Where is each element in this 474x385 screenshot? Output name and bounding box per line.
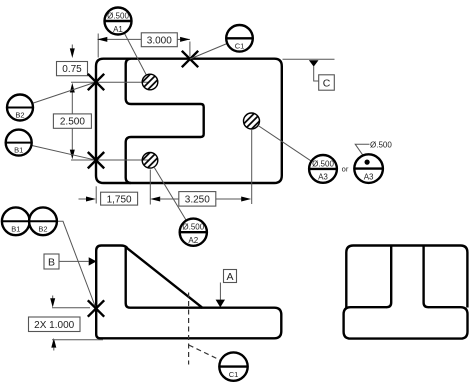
datum C leader: [314, 66, 319, 81]
end view wall block: [346, 246, 467, 308]
balloon A1 leader: [124, 33, 146, 75]
svg-text:Ø.500: Ø.500: [107, 11, 129, 20]
front view wall face line: [126, 247, 202, 308]
datum A triangle: [216, 300, 225, 308]
extension line left of 3.000: [97, 34, 99, 58]
svg-text:C1: C1: [235, 42, 245, 51]
balloon C1 top leader: [190, 44, 227, 60]
balloon C1 top: [226, 25, 253, 52]
balloon A3 alternate leader: [355, 144, 369, 161]
dimension 2X 1.000 lower arrow tail: [53, 347, 55, 350]
dimension 0.75 box: [57, 62, 88, 76]
hole A2: [142, 153, 158, 169]
dimension 2X 1.000 box: [29, 317, 81, 332]
dimension 1,750 tail left: [79, 198, 88, 200]
balloon C1 bottom: [219, 352, 247, 380]
dimension 3.000 right arrow: [180, 37, 190, 42]
svg-text:3.250: 3.250: [185, 195, 210, 206]
dimension 3.250 right arrow: [241, 197, 251, 202]
extension line below hole A3: [251, 130, 253, 204]
datum B box: [44, 254, 59, 269]
end view rib right line: [424, 246, 429, 308]
svg-text:C1: C1: [229, 370, 239, 379]
balloon A3: [309, 155, 337, 183]
svg-text:1,750: 1,750: [107, 194, 132, 205]
svg-text:2.500: 2.500: [60, 117, 85, 128]
svg-text:0.75: 0.75: [62, 64, 82, 75]
hole A3: [244, 113, 260, 129]
svg-text:B2: B2: [38, 225, 47, 234]
end view base: [344, 307, 468, 338]
dimension 1,750 right arrow: [150, 197, 160, 202]
top view wall face and rib contour: [126, 59, 204, 183]
balloon pair B1 B2 leader: [2, 221, 97, 308]
leader line through datum target B2: [71, 81, 149, 83]
svg-text:Ø.500: Ø.500: [312, 159, 334, 168]
leader line through datum target B1: [71, 159, 150, 161]
svg-text:A3: A3: [318, 173, 328, 182]
datum target X B2: [88, 74, 104, 90]
dimension 3.000 line right: [177, 38, 190, 40]
front view hidden centerline C1: [188, 293, 190, 365]
svg-text:Ø.500: Ø.500: [182, 223, 204, 232]
balloon A2: [180, 219, 207, 246]
datum B triangle: [89, 257, 97, 265]
dimension 3.000 line left: [98, 38, 142, 40]
svg-text:A: A: [226, 271, 233, 283]
svg-text:B1: B1: [11, 225, 20, 234]
top edge extension line for datum C: [283, 58, 335, 60]
hole A1: [142, 74, 158, 90]
svg-text:or: or: [342, 164, 349, 173]
dimension 2.500 line upper: [71, 92, 73, 114]
balloon B2 bottom: [29, 207, 57, 235]
balloon B1 bottom: [2, 207, 30, 235]
svg-text:2X 1.000: 2X 1.000: [34, 320, 74, 331]
dimension 3.250 box: [179, 192, 216, 207]
datum A leader: [219, 283, 221, 300]
extension line below hole A2: [149, 170, 151, 205]
end view rib left line: [387, 246, 392, 308]
balloon A2 leader: [154, 167, 186, 221]
balloon B2 top: [7, 95, 33, 121]
dimension 2X 1.000 upper line: [52, 307, 90, 309]
balloon B1 top: [6, 130, 32, 156]
datum C triangle: [309, 60, 319, 66]
dimension 2X 1.000 lower arrow: [51, 338, 56, 348]
datum target X C1: [182, 51, 198, 67]
dimension 2X 1.000 upper arrow tail: [52, 296, 54, 300]
dimension 3.250 line right: [216, 198, 242, 200]
datum B leader: [59, 260, 89, 262]
svg-text:B2: B2: [15, 111, 24, 120]
balloon B1 leader: [31, 145, 96, 160]
dimension 2.500 lower arrow: [70, 150, 75, 160]
dimension 1,750 left arrow: [86, 197, 96, 202]
balloon A3 alternate: [354, 154, 383, 183]
balloon B2 leader: [32, 82, 96, 103]
datum C box: [319, 75, 335, 90]
dimension 2X 1.000 lower line: [52, 339, 103, 341]
dimension 2.500 box: [53, 114, 91, 128]
datum A box: [224, 270, 237, 283]
dimension 3.000 left arrow: [97, 37, 107, 42]
balloon A1: [105, 8, 132, 35]
dimension 2.500 upper arrow: [70, 83, 75, 93]
dimension 0.75 upper arrow: [70, 48, 75, 58]
svg-text:A3: A3: [364, 172, 374, 181]
extension line below left edge: [95, 186, 97, 203]
dimension 2X 1.000 upper arrow: [50, 298, 55, 307]
svg-text:A1: A1: [113, 25, 123, 34]
dimension 0.75 upper arrow tail: [71, 45, 73, 49]
svg-text:C: C: [323, 77, 331, 89]
balloon A3 leader: [258, 126, 311, 162]
extension line right of 3.000: [189, 42, 191, 57]
datum target X front: [88, 300, 104, 316]
svg-text:3.000: 3.000: [147, 35, 172, 46]
dimension 3.000 box: [141, 33, 177, 47]
datum target X B1: [88, 152, 104, 168]
dimension 2.500 line lower: [71, 128, 73, 149]
dimension 3.250 line left: [160, 198, 179, 200]
dimension 1,750 box: [101, 192, 138, 205]
top view outer outline: [96, 59, 282, 183]
balloon C1 bottom leader: [189, 345, 221, 360]
svg-text:B1: B1: [14, 146, 23, 155]
front view outline: [96, 246, 281, 339]
svg-text:B: B: [48, 257, 55, 269]
svg-text:A2: A2: [188, 236, 198, 245]
svg-text:Ø.500: Ø.500: [370, 140, 392, 149]
